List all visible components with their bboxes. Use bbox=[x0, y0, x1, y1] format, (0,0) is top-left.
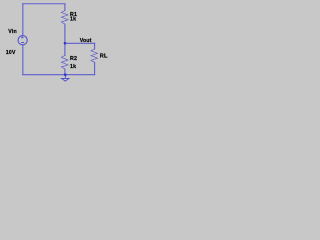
svg-text:1k: 1k bbox=[70, 16, 76, 22]
voltage source V1 circle bbox=[18, 36, 27, 45]
wire left vertical lower bbox=[22, 45, 24, 75]
wire RL top stub bbox=[94, 43, 96, 49]
wire top horizontal bbox=[23, 3, 65, 5]
minus sign bbox=[21, 42, 24, 44]
ground triangle bbox=[62, 78, 70, 81]
ground stem bbox=[64, 75, 66, 79]
plus sign bbox=[21, 36, 23, 38]
svg-text:Vout: Vout bbox=[80, 38, 92, 44]
background bbox=[0, 0, 120, 88]
wire Vout horizontal bbox=[65, 42, 95, 44]
resistor R1 bbox=[61, 11, 68, 25]
svg-text:R2: R2 bbox=[70, 56, 77, 62]
resistor R2 bbox=[61, 55, 68, 69]
node ground junction dot bbox=[64, 73, 67, 76]
node Vout junction dot bbox=[64, 42, 67, 45]
wire RL bottom bbox=[94, 62, 96, 74]
resistor RL bbox=[91, 49, 98, 63]
svg-text:10V: 10V bbox=[6, 50, 16, 56]
wire R2 bottom bbox=[64, 69, 66, 75]
wire bottom horizontal bbox=[23, 74, 95, 76]
wire R1 top stub bbox=[64, 4, 66, 11]
svg-text:RL: RL bbox=[100, 54, 108, 60]
wire left vertical upper bbox=[22, 4, 24, 36]
svg-text:Vin: Vin bbox=[8, 29, 17, 35]
wire R1 bottom to Vout node bbox=[64, 24, 66, 43]
svg-text:1k: 1k bbox=[70, 64, 76, 70]
wire R2 top stub bbox=[64, 43, 66, 55]
